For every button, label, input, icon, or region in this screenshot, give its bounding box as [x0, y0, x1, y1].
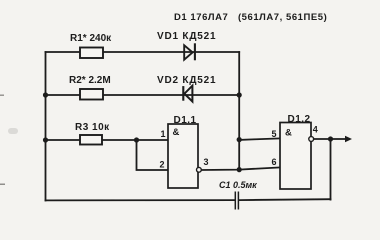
- svg-text:R3 10к: R3 10к: [75, 122, 110, 133]
- svg-text:2: 2: [160, 160, 165, 170]
- svg-text:5: 5: [272, 129, 277, 139]
- svg-text:1: 1: [161, 129, 166, 139]
- svg-text:VD2 КД521: VD2 КД521: [157, 75, 216, 86]
- svg-text:D1.1: D1.1: [174, 115, 197, 126]
- svg-text:VD1 КД521: VD1 КД521: [157, 31, 216, 42]
- svg-text:R2* 2.2M: R2* 2.2M: [69, 75, 111, 86]
- svg-text:C1 0.5мк: C1 0.5мк: [219, 180, 257, 190]
- svg-text:4: 4: [313, 125, 318, 135]
- svg-text:D1.2: D1.2: [288, 114, 311, 125]
- svg-text:R1* 240к: R1* 240к: [70, 33, 112, 44]
- svg-text:&: &: [173, 127, 180, 138]
- svg-text:&: &: [285, 128, 292, 139]
- svg-text:D1 176ЛА7 (561ЛА7, 561ПЕ5): D1 176ЛА7 (561ЛА7, 561ПЕ5): [174, 12, 327, 23]
- svg-text:6: 6: [272, 157, 277, 167]
- svg-text:3: 3: [204, 157, 209, 167]
